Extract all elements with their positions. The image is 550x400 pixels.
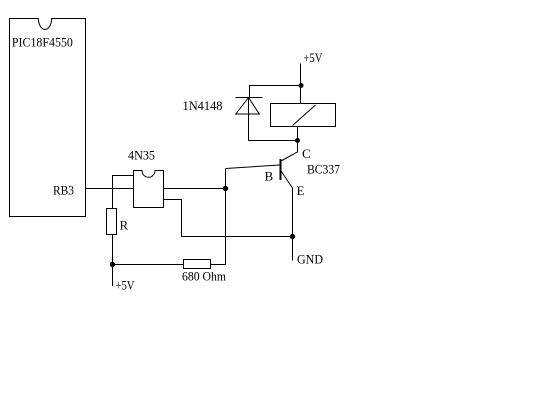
svg-text:C: C [302, 146, 311, 161]
resistor 680 Ohm body [184, 260, 211, 269]
wire 680 Ohm up to base node [211, 169, 226, 265]
relay K1 coil diagonal [293, 105, 316, 126]
svg-text:E: E [297, 183, 305, 198]
relay K1 body [271, 104, 336, 127]
svg-text:+5V: +5V [303, 50, 322, 65]
svg-text:1N4148: 1N4148 [183, 98, 223, 113]
wire base node to transistor base [226, 165, 280, 169]
diode D1 1N4148 triangle [236, 98, 259, 115]
node junction emitter [290, 234, 295, 239]
wire +5V down to relay [300, 64, 302, 104]
IC U1 PIC18F4550 body [10, 19, 86, 217]
optocoupler U2 4N35 body [134, 171, 164, 208]
node junction +5V/diode [299, 83, 304, 88]
svg-text:680 Ohm: 680 Ohm [182, 269, 226, 284]
wire +5V node to diode cathode [250, 86, 302, 98]
wire 4N35 bottom pin to emitter [164, 200, 293, 237]
wire riser to 4N35 top-left pin [113, 176, 134, 210]
node junction collector [295, 138, 300, 143]
transistor Q1 BC337 base bar [280, 159, 282, 180]
svg-text:R: R [120, 218, 129, 233]
wire RB3 to 4N35 pin 1 [86, 188, 134, 190]
node junction base node [223, 186, 228, 191]
transistor Q1 collector lead [281, 141, 298, 162]
wire diode anode to collector node [249, 98, 298, 141]
wire 4N35 output to base node [164, 188, 226, 190]
svg-text:BC337: BC337 [307, 162, 340, 177]
svg-text:GND: GND [297, 252, 323, 267]
svg-text:4N35: 4N35 [128, 148, 155, 163]
wire relay bottom to collector node [297, 127, 299, 141]
resistor R body [107, 209, 117, 235]
svg-text:B: B [265, 169, 274, 184]
node junction at +5V rail [110, 262, 115, 267]
wire +5V rail to 680 Ohm [113, 264, 184, 266]
diode D1 1N4148 cathode bar [236, 97, 263, 99]
svg-text:+5V: +5V [116, 278, 135, 293]
svg-text:RB3: RB3 [53, 183, 74, 198]
svg-text:PIC18F4550: PIC18F4550 [12, 34, 73, 49]
wire R to +5V rail [112, 235, 114, 286]
transistor Q1 emitter lead [281, 171, 293, 261]
